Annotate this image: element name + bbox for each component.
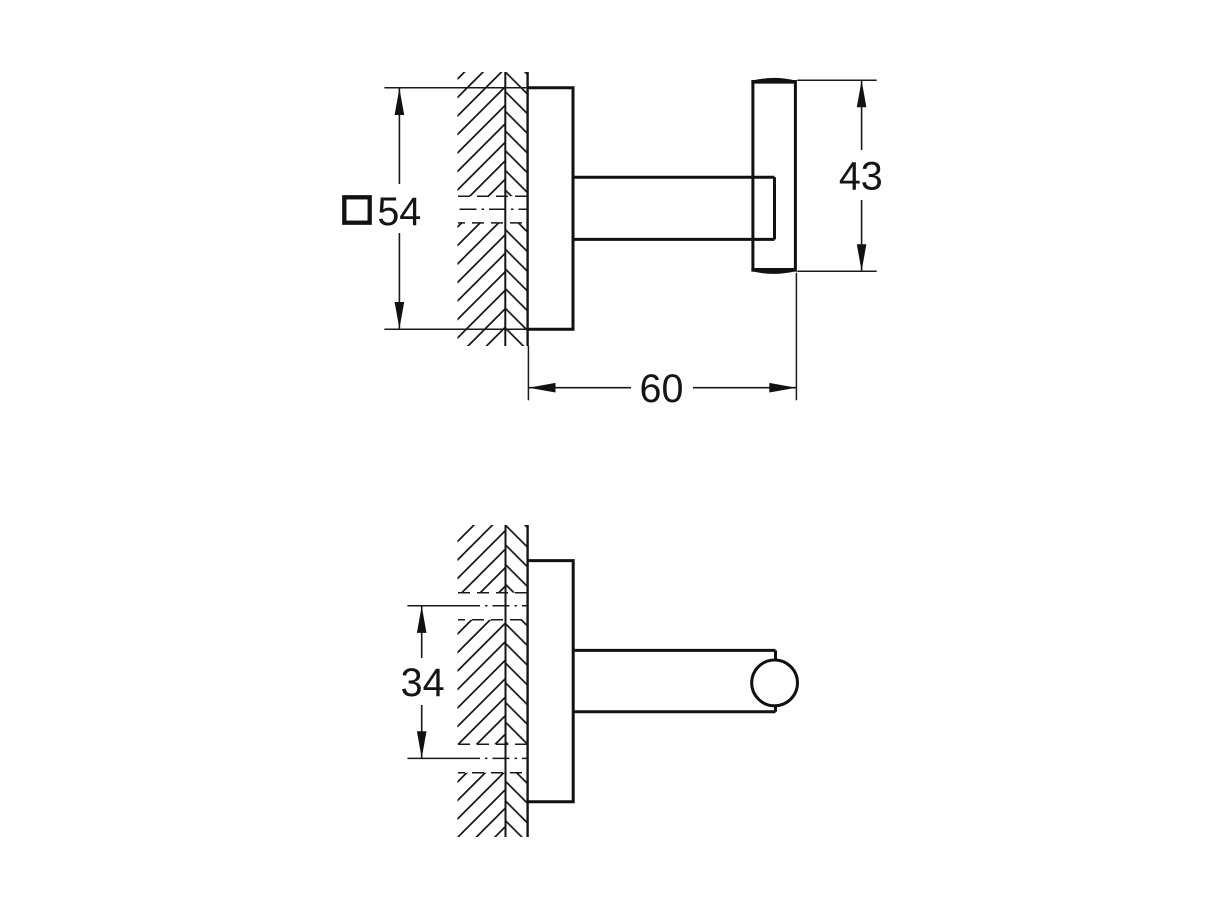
wall hatching right band (bottom view) bbox=[506, 525, 528, 837]
hook arm (bottom view) bbox=[573, 650, 775, 711]
dimension 34: dimension line bbox=[421, 606, 423, 758]
wall hatching left band (bottom view) bbox=[458, 525, 506, 837]
dimension 60: right extension line bbox=[795, 273, 797, 401]
wall surface line (top view) bbox=[526, 72, 528, 346]
lower hole hidden line bottom (bottom view) bbox=[458, 772, 528, 774]
svg-text:54: 54 bbox=[377, 190, 421, 234]
hook end bar bottom cap arc bbox=[751, 268, 796, 274]
hook end bar top cap arc bbox=[751, 78, 796, 84]
dimension 43: arrow up bbox=[857, 80, 867, 107]
hook arm (top view) bbox=[573, 177, 775, 239]
wall hatching right band (top view) bbox=[505, 72, 527, 346]
hook end bar (top view) bbox=[753, 82, 796, 271]
mounting hole hidden line top (top view) bbox=[458, 195, 528, 197]
dimension 34: arrow down bbox=[417, 731, 427, 758]
hook bar cross-section circle (bottom view) bbox=[752, 660, 798, 706]
mounting hole hidden line bottom (top view) bbox=[458, 222, 528, 224]
dimension 60: left extension line bbox=[527, 346, 529, 400]
dimension 54: arrow down bbox=[395, 302, 405, 329]
svg-text:60: 60 bbox=[640, 367, 684, 411]
wall hatching left band (top view) bbox=[458, 72, 506, 346]
upper hole hidden line bottom (bottom view) bbox=[458, 619, 528, 621]
svg-text:43: 43 bbox=[839, 155, 883, 199]
dimension 60: dimension line bbox=[529, 387, 796, 389]
dimension 43: bottom extension line bbox=[797, 270, 876, 272]
dimension 43: arrow down bbox=[857, 244, 867, 271]
dimension 54: bottom extension line bbox=[384, 328, 528, 330]
dimension 54: dimension line bbox=[398, 88, 400, 328]
wall plate (bottom view) bbox=[527, 561, 573, 802]
dimension 34: bottom extension + centerline bbox=[407, 757, 463, 759]
upper hole hidden line top (bottom view) bbox=[458, 592, 528, 594]
wall center line (top view) bbox=[504, 72, 506, 346]
wall plate (top view) bbox=[527, 88, 573, 329]
svg-text:34: 34 bbox=[401, 661, 445, 705]
dimension 60: arrow right bbox=[769, 383, 796, 393]
dimension 34: arrow up bbox=[417, 606, 427, 633]
mounting hole centerline (top view) bbox=[460, 208, 528, 210]
square section symbol bbox=[344, 197, 369, 222]
dimension 43: top extension line bbox=[797, 79, 876, 81]
dimension 34: top extension + centerline bbox=[407, 605, 463, 607]
dimension 60: arrow left bbox=[529, 383, 556, 393]
lower hole hidden line top (bottom view) bbox=[458, 743, 528, 745]
dimension 43: dimension line bbox=[861, 81, 863, 271]
dimension 54: top extension line bbox=[384, 87, 528, 89]
wall surface line (bottom view) bbox=[526, 525, 528, 837]
dimension 54: arrow up bbox=[395, 88, 405, 115]
wall center line (bottom view) bbox=[505, 525, 507, 837]
